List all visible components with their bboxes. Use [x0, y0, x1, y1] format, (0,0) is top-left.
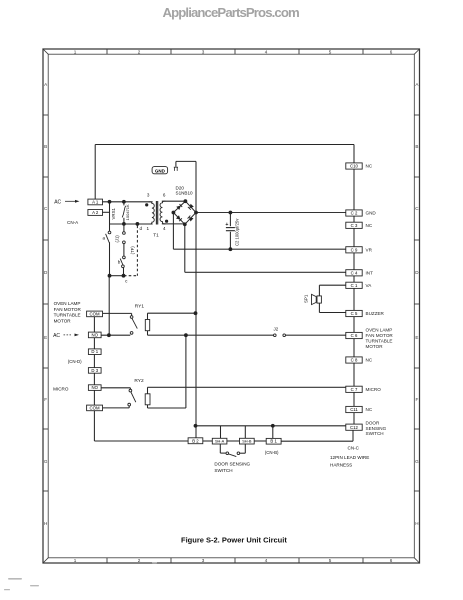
svg-text:HARNESS: HARNESS [330, 462, 352, 467]
svg-text:C10: C10 [350, 164, 358, 169]
svg-text:Figure S-2. Power Unit Circuit: Figure S-2. Power Unit Circuit [181, 536, 287, 545]
svg-text:G: G [415, 459, 419, 464]
svg-text:(TF): (TF) [130, 246, 135, 255]
svg-text:INT: INT [366, 271, 374, 276]
svg-text:S1NB10: S1NB10 [176, 191, 194, 196]
svg-text:b: b [118, 260, 121, 265]
svg-text:C 4: C 4 [351, 271, 358, 276]
svg-text:B: B [44, 144, 47, 149]
svg-text:C 8: C 8 [351, 358, 358, 363]
svg-text:C12: C12 [350, 425, 358, 430]
svg-text:1: 1 [74, 50, 77, 55]
svg-text:6: 6 [163, 192, 166, 197]
svg-text:5: 5 [329, 558, 332, 563]
svg-text:DOOR: DOOR [366, 421, 380, 426]
svg-text:AppliancePartsPros.com: AppliancePartsPros.com [163, 5, 299, 20]
svg-text:TURNTABLE: TURNTABLE [54, 313, 81, 318]
svg-text:SH-B: SH-B [242, 439, 252, 444]
svg-text:C 9: C 9 [351, 248, 358, 253]
svg-text:(CN-B): (CN-B) [265, 450, 279, 455]
svg-text:6: 6 [390, 558, 393, 563]
svg-text:5: 5 [329, 50, 332, 55]
svg-text:CN-C: CN-C [348, 446, 360, 451]
svg-text:E: E [44, 335, 47, 340]
svg-text:RY2: RY2 [134, 378, 144, 384]
svg-text:1: 1 [147, 226, 150, 231]
svg-text:OVEN LAMP: OVEN LAMP [54, 301, 81, 306]
svg-text:NC: NC [366, 407, 373, 412]
svg-text:H: H [415, 521, 418, 526]
svg-text:MOTOR: MOTOR [366, 344, 384, 349]
svg-text:C2 1000µf/25v: C2 1000µf/25v [235, 218, 240, 246]
svg-text:GND: GND [155, 169, 166, 174]
svg-text:2: 2 [138, 50, 141, 55]
svg-text:DOOR SENSING: DOOR SENSING [214, 462, 250, 467]
svg-text:a: a [103, 235, 106, 240]
svg-text:E: E [415, 335, 418, 340]
svg-text:12PIN LEAD WIRE: 12PIN LEAD WIRE [330, 455, 369, 460]
svg-text:T1: T1 [153, 232, 159, 237]
svg-text:4: 4 [265, 50, 268, 55]
svg-text:NC: NC [366, 164, 373, 169]
svg-text:C11: C11 [350, 407, 358, 412]
svg-text:MICRO: MICRO [53, 386, 69, 391]
svg-text:VA: VA [366, 283, 373, 288]
svg-text:SWITCH: SWITCH [366, 431, 384, 436]
svg-text:d: d [140, 226, 143, 231]
svg-text:NO: NO [92, 385, 99, 390]
svg-text:C 1: C 1 [351, 283, 358, 288]
svg-text:NO: NO [92, 332, 99, 337]
svg-text:COM: COM [90, 405, 100, 410]
svg-text:G: G [44, 459, 48, 464]
svg-text:B 2: B 2 [192, 438, 199, 443]
svg-text:C 5: C 5 [351, 311, 358, 316]
svg-text:H: H [44, 521, 47, 526]
svg-text:TURNTABLE: TURNTABLE [366, 339, 393, 344]
svg-text:+: + [225, 222, 228, 228]
svg-text:A 2: A 2 [92, 210, 99, 215]
svg-text:MOTOR: MOTOR [54, 318, 72, 323]
svg-text:(J1): (J1) [115, 235, 120, 243]
svg-text:6: 6 [390, 50, 393, 55]
svg-text:F: F [415, 397, 418, 402]
svg-text:C 2: C 2 [351, 211, 358, 216]
svg-text:VRS1: VRS1 [111, 207, 116, 219]
svg-text:4: 4 [163, 226, 166, 231]
svg-text:3: 3 [147, 193, 150, 198]
svg-text:2: 2 [138, 558, 141, 563]
svg-text:D20: D20 [176, 185, 185, 190]
svg-text:D 1: D 1 [91, 349, 98, 354]
svg-text:D 3: D 3 [91, 368, 98, 373]
svg-text:100471K: 100471K [125, 204, 130, 220]
svg-text:NC: NC [366, 223, 373, 228]
svg-text:C 6: C 6 [351, 333, 358, 338]
svg-text:GND: GND [366, 211, 377, 216]
svg-text:SENSING: SENSING [366, 426, 387, 431]
svg-text:3: 3 [202, 558, 205, 563]
svg-text:F: F [44, 397, 47, 402]
svg-text:VR: VR [366, 248, 373, 253]
svg-text:B: B [415, 144, 418, 149]
svg-text:J2: J2 [274, 327, 279, 332]
svg-text:SP1: SP1 [304, 294, 309, 303]
svg-text:BUZZER: BUZZER [366, 311, 385, 316]
svg-text:1: 1 [74, 558, 77, 563]
svg-text:(CN-D): (CN-D) [68, 359, 82, 364]
svg-text:NC: NC [366, 358, 373, 363]
svg-text:CN-A: CN-A [67, 220, 79, 225]
svg-text:AC: AC [54, 199, 61, 205]
svg-text:C 3: C 3 [351, 223, 358, 228]
svg-text:MICRO: MICRO [366, 387, 382, 392]
svg-text:3: 3 [202, 50, 205, 55]
svg-text:OVEN LAMP: OVEN LAMP [366, 327, 393, 332]
svg-text:FAN MOTOR: FAN MOTOR [54, 307, 82, 312]
svg-text:B 1: B 1 [270, 439, 277, 444]
svg-text:SWITCH: SWITCH [214, 468, 232, 473]
svg-text:AC: AC [53, 333, 60, 339]
svg-text:A 1: A 1 [92, 199, 99, 204]
svg-text:4: 4 [265, 558, 268, 563]
svg-text:COM: COM [90, 311, 100, 316]
svg-text:C 7: C 7 [351, 387, 358, 392]
svg-text:SH-A: SH-A [215, 439, 225, 444]
svg-text:RY1: RY1 [135, 304, 145, 310]
svg-text:FAN MOTOR: FAN MOTOR [366, 333, 394, 338]
